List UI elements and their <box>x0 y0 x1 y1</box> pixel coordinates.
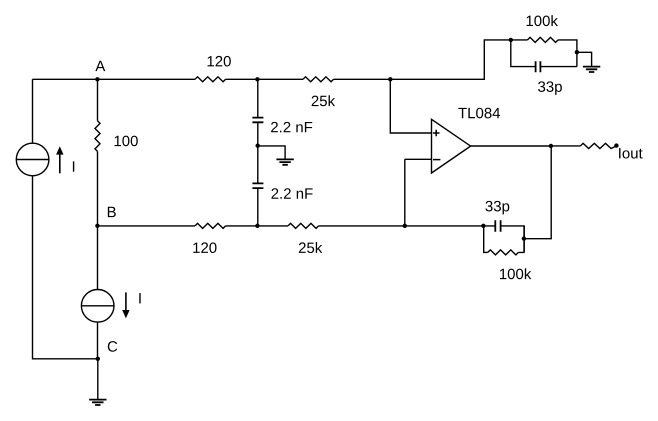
label 100 <box>115 136 138 147</box>
op-amp TL084 triangle <box>432 119 471 173</box>
node Iout terminal <box>614 143 618 147</box>
ground (top right) <box>583 67 600 72</box>
label 33p (bottom) <box>485 201 509 215</box>
capacitor 2.2nF (upper) <box>252 118 263 123</box>
node A <box>95 77 99 81</box>
resistor 120 (top) <box>195 77 226 82</box>
op-amp plus sign <box>433 130 440 137</box>
ground (mid) <box>276 159 293 164</box>
wire 100k right side <box>558 40 577 67</box>
current source I1 <box>16 143 49 176</box>
node junction op-amp branch <box>388 77 392 81</box>
capacitor 2.2nF (lower) <box>252 183 263 188</box>
node between caps <box>256 144 260 148</box>
label I (source 1) <box>73 161 74 171</box>
arrow I1 (up) <box>56 146 63 173</box>
wire 100k bottom loop right <box>518 226 524 253</box>
arrow I2 (down) <box>122 292 129 318</box>
node bottom cap branch <box>255 224 259 228</box>
wire stem to top-right ground <box>577 52 592 66</box>
node B <box>95 224 99 228</box>
node 33p loop left <box>481 224 485 228</box>
resistor 100 <box>95 121 100 152</box>
ground (bottom) <box>89 400 106 405</box>
resistor 100k (bottom) <box>488 250 519 255</box>
label B <box>108 207 116 217</box>
capacitor 33p (bottom) <box>495 220 500 231</box>
wire top net A row <box>33 40 528 79</box>
label TL084 <box>458 108 500 119</box>
label 25k (top) <box>312 95 335 106</box>
node 100k top left <box>509 38 513 42</box>
resistor Iout <box>581 143 617 148</box>
wire cap branch vertical <box>257 79 259 226</box>
label 2.2 nF (lower) <box>271 188 312 198</box>
wire feedback to output <box>524 146 551 239</box>
wire to op-amp + input <box>390 79 431 133</box>
wire B down to source I2 <box>97 226 99 290</box>
resistor 100k (top) <box>528 37 559 42</box>
wire C to ground <box>97 359 99 400</box>
resistor 25k (bottom) <box>288 223 319 228</box>
wire 100k bottom loop left <box>484 226 488 253</box>
label A <box>95 61 105 71</box>
wire source I2 to node C <box>97 322 99 359</box>
label 120 (top) <box>208 56 231 67</box>
label I (source 2) <box>139 293 140 303</box>
resistor 120 (bottom) <box>195 223 226 228</box>
capacitor 33p (top) <box>536 61 541 72</box>
node output junction <box>549 144 553 148</box>
wire op-amp - input <box>405 159 432 226</box>
label C <box>108 341 117 352</box>
label 100k (top) <box>527 15 558 26</box>
wire left rail <box>33 79 98 359</box>
label 25k (bottom) <box>299 242 322 253</box>
label Iout <box>619 148 643 158</box>
node C <box>96 357 100 361</box>
node 100k top right <box>575 50 579 54</box>
node bottom - input branch <box>403 224 407 228</box>
wire op-amp output <box>471 145 581 147</box>
node junction top cap branch <box>255 77 259 81</box>
wire A to B vertical <box>97 79 99 226</box>
wire 33p top branch <box>511 40 577 67</box>
label 100k (bottom) <box>500 268 531 279</box>
node feedback junction <box>522 236 526 240</box>
label 120 (bottom) <box>193 242 216 253</box>
wire bottom net B row <box>97 226 524 252</box>
current source I2 <box>81 290 114 323</box>
label 2.2 nF (upper) <box>271 122 312 132</box>
resistor 25k (top) <box>303 77 334 82</box>
wire stem to mid ground <box>258 146 285 159</box>
label 33p (top) <box>538 81 562 95</box>
op-amp minus sign <box>433 159 440 161</box>
